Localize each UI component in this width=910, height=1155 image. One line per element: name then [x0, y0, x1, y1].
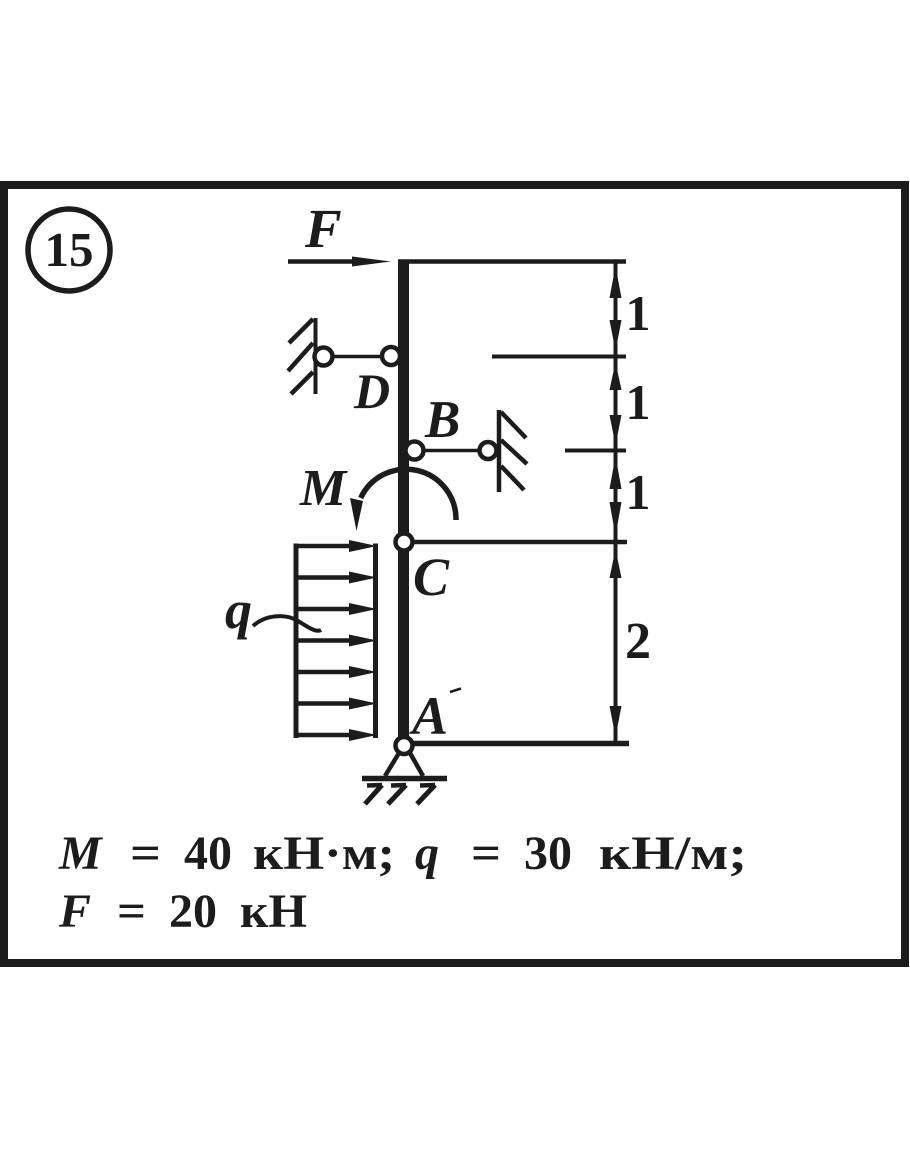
svg-text:30: 30 [524, 827, 572, 880]
svg-text:1: 1 [626, 285, 651, 341]
svg-text:1: 1 [626, 374, 651, 430]
svg-text:40: 40 [184, 827, 232, 880]
svg-text:кН·м;: кН·м; [253, 827, 395, 880]
svg-text:1: 1 [626, 464, 651, 520]
svg-text:кН: кН [240, 885, 307, 938]
svg-text:q: q [225, 580, 252, 640]
svg-text:F: F [304, 198, 342, 259]
svg-text:кН/м;: кН/м; [599, 827, 747, 880]
svg-text:M: M [58, 827, 104, 880]
svg-text:D: D [353, 363, 390, 419]
svg-text:M: M [299, 460, 348, 517]
svg-text:C: C [413, 547, 450, 607]
svg-text:=: = [130, 827, 161, 880]
svg-text:=: = [471, 827, 501, 880]
svg-text:A: A [409, 686, 448, 746]
svg-text:2: 2 [625, 613, 651, 670]
svg-text:q: q [415, 827, 439, 880]
svg-text:20: 20 [169, 885, 217, 938]
svg-text:F: F [58, 885, 91, 938]
svg-text:B: B [424, 391, 460, 449]
svg-text:15: 15 [45, 222, 94, 277]
svg-text:=: = [117, 885, 146, 938]
